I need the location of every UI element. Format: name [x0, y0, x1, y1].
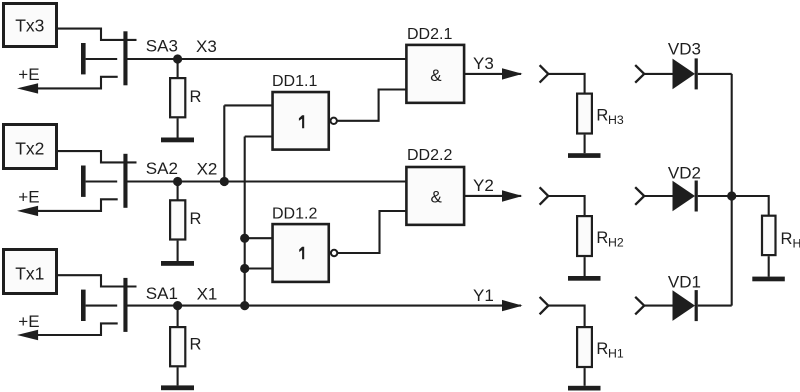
svg-text:SA3: SA3 [146, 36, 178, 55]
op-amp DD2.2 AND gate [406, 147, 464, 225]
wire DD1.1 output to DD2.1 input 2 [337, 90, 407, 121]
wire node X2 to DD2.2 input 1 [178, 180, 407, 182]
wire VD2 cathode to bus [698, 195, 732, 197]
junction dot X2 tap to DD1.1 input 1 [220, 177, 229, 186]
wire SA3 to node X3 [128, 58, 178, 60]
node X1 junction dot [173, 301, 182, 310]
connector pin VD1 input [635, 297, 644, 315]
wire node X3 down to resistor R (row 3) [177, 59, 179, 78]
wire R_H to ground [768, 256, 770, 276]
svg-text:+E: +E [18, 188, 39, 207]
wire R_H1 to ground [584, 368, 586, 386]
svg-text:R: R [596, 229, 608, 247]
svg-text:&: & [431, 188, 443, 207]
resistor R_H [762, 216, 776, 255]
connector pin VD2 input [635, 187, 644, 205]
connector pin Y3 [540, 65, 549, 82]
connector pin Y2 [540, 187, 549, 204]
wire DD1.1 input 2 stub [245, 135, 273, 137]
wire VD1 cathode to bus [698, 305, 732, 307]
ground (row 3) [161, 138, 194, 143]
wire resistor R to ground (row 1) [177, 367, 179, 385]
wire +E feed to SA1 bottom contact (row 1) [22, 323, 118, 335]
svg-text:DD1.1: DD1.1 [272, 73, 317, 90]
svg-text:Y1: Y1 [473, 286, 494, 305]
wire node X1 to output arrow Y1 [178, 305, 521, 307]
wire resistor R to ground (row 3) [177, 118, 179, 137]
svg-text:DD1.2: DD1.2 [272, 206, 317, 223]
pushbutton SA1 actuator short bar [81, 290, 86, 321]
wire bus to R_H [732, 196, 769, 216]
wire Tx1 output to SA1 top contact [58, 275, 137, 286]
wire +E feed to SA3 bottom contact (row 3) [22, 77, 118, 89]
diode VD2 [668, 164, 701, 212]
ground R_H2 [568, 276, 601, 281]
resistor R (row 3) [170, 78, 185, 117]
wire connector to VD1 anode [644, 305, 673, 307]
wire R_H3 to ground [584, 135, 586, 154]
wire DD1.1 input 1 stub [224, 104, 272, 106]
wire connector Y2 to R_H2 [548, 196, 584, 216]
diode VD1 [668, 272, 701, 321]
svg-text:R: R [596, 340, 608, 358]
inverter bubble DD1.1 output [331, 118, 337, 124]
label R_H [781, 230, 800, 251]
pushbutton SA3 movable tall bar [123, 31, 127, 85]
wire node X2 up to DD1.1 input 1 [223, 105, 225, 181]
pushbutton SA3 common contact wire [86, 58, 118, 60]
resistor R_H2 [577, 216, 592, 256]
svg-text:VD1: VD1 [668, 272, 701, 291]
arrowhead +E (row 1) [17, 330, 38, 340]
junction dot DD1.2 input 1 [240, 234, 249, 243]
wire DD1.2 output to DD2.2 input 2 [337, 211, 406, 253]
op-amp DD2.1 AND gate [406, 26, 464, 103]
svg-text:Tx2: Tx2 [15, 138, 44, 158]
svg-text:SA2: SA2 [146, 159, 178, 178]
svg-text:Tx3: Tx3 [15, 16, 44, 36]
wire connector to VD3 anode [644, 73, 673, 75]
wire node X2 down to resistor R (row 2) [177, 182, 179, 201]
label R_H3 [596, 107, 623, 128]
arrowhead Y2 [502, 190, 523, 201]
wire connector to VD2 anode [644, 195, 673, 197]
wire connector Y3 to R_H3 [548, 74, 584, 94]
node X2 junction dot [173, 177, 182, 186]
label R_H1 [596, 340, 623, 361]
op-amp DD1.2 NOT gate [272, 206, 329, 282]
svg-text:R: R [190, 335, 202, 353]
box Tx2 [4, 125, 57, 169]
arrowhead +E (row 2) [17, 206, 38, 216]
wire DD1.2 input 2 stub [245, 267, 273, 269]
wire R_H2 to ground [584, 257, 586, 276]
wire +E feed to SA2 bottom contact (row 2) [22, 199, 118, 211]
wire Tx2 output to SA2 top contact [58, 151, 137, 162]
wire node X1 down to resistor R (row 1) [177, 306, 179, 328]
box Tx3 [4, 4, 57, 47]
resistor R_H3 [577, 94, 592, 134]
svg-text:R: R [190, 210, 202, 228]
connector pin VD3 input [635, 65, 644, 83]
arrowhead +E (row 3) [17, 83, 38, 93]
inverter bubble DD1.2 output [331, 250, 337, 256]
arrowhead Y1 [502, 300, 523, 311]
svg-text:SA1: SA1 [146, 284, 178, 303]
wire SA2 to node X2 [128, 180, 178, 182]
svg-text:+E: +E [18, 65, 39, 84]
connector pin Y1 [540, 297, 549, 314]
svg-text:R: R [781, 230, 793, 248]
node X3 junction dot [173, 54, 182, 63]
pushbutton SA1 common contact wire [86, 305, 118, 307]
ground R_H3 [568, 153, 601, 158]
svg-text:VD2: VD2 [668, 164, 701, 183]
op-amp DD1.1 NOR gate [272, 73, 329, 150]
svg-text:X2: X2 [197, 159, 218, 178]
wire VD3 cathode to bus [698, 73, 732, 75]
wire diode-OR bus vertical [731, 74, 733, 306]
svg-text:Y2: Y2 [473, 176, 494, 195]
wire connector Y1 to R_H1 [548, 306, 584, 328]
svg-text:R: R [596, 107, 608, 125]
junction dot X1 tap to DD1 gates [240, 301, 249, 310]
svg-text:H3: H3 [608, 113, 624, 127]
wire SA1 to node X1 [128, 305, 178, 307]
ground (row 2) [161, 261, 194, 266]
junction dot bus to R_H [727, 191, 736, 200]
pushbutton SA3 actuator short bar [81, 43, 86, 74]
ground (row 1) [161, 385, 194, 390]
arrowhead Y3 [502, 68, 523, 79]
junction dot DD1.2 input 2 [240, 264, 249, 273]
wire DD1.2 input 1 stub [245, 237, 273, 239]
wire DD2.1 output Y3 [464, 73, 521, 75]
svg-text:+E: +E [18, 312, 39, 331]
pushbutton SA2 movable tall bar [123, 154, 127, 208]
svg-text:DD2.1: DD2.1 [407, 26, 452, 43]
wire DD2.2 output Y2 [464, 195, 521, 197]
svg-text:&: & [430, 66, 442, 85]
pushbutton SA2 actuator short bar [81, 166, 86, 197]
svg-text:H1: H1 [608, 347, 624, 361]
pushbutton SA1 movable tall bar [123, 278, 127, 332]
wire Tx3 output to SA3 top contact [58, 29, 137, 40]
svg-text:DD2.2: DD2.2 [407, 147, 452, 164]
svg-text:VD3: VD3 [668, 39, 701, 58]
svg-text:R: R [190, 88, 202, 106]
svg-text:Tx1: Tx1 [15, 263, 44, 283]
wire node X3 to DD2.1 input 1 [178, 58, 407, 60]
resistor R_H1 [577, 327, 592, 367]
ground R_H [752, 277, 785, 282]
box Tx1 [4, 250, 57, 294]
resistor R (row 2) [170, 200, 185, 239]
svg-text:Y3: Y3 [473, 54, 494, 73]
wire resistor R to ground (row 2) [177, 241, 179, 261]
svg-text:H2: H2 [608, 236, 624, 250]
wire node X1 up to DD1.1 input 2 / DD1.2 inputs [244, 137, 246, 306]
diode VD3 [668, 39, 701, 89]
ground R_H1 [568, 386, 601, 391]
svg-text:X3: X3 [196, 37, 217, 56]
label R_H2 [596, 229, 623, 250]
svg-text:H: H [793, 236, 800, 250]
pushbutton SA2 common contact wire [86, 180, 118, 182]
svg-text:X1: X1 [197, 284, 218, 303]
resistor R (row 1) [170, 327, 185, 366]
